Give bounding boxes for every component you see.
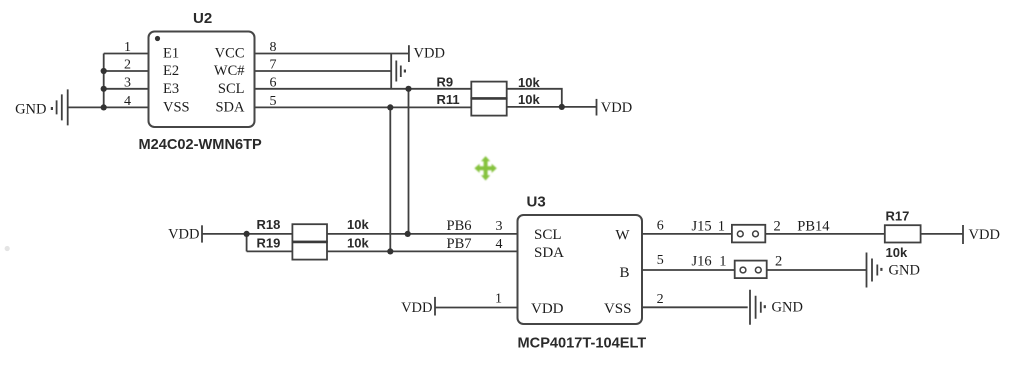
svg-text:6: 6 bbox=[657, 218, 664, 233]
svg-text:J16: J16 bbox=[692, 254, 712, 270]
svg-text:R17: R17 bbox=[886, 209, 910, 224]
svg-text:E3: E3 bbox=[163, 81, 179, 97]
svg-text:1: 1 bbox=[719, 254, 726, 270]
svg-text:1: 1 bbox=[495, 292, 502, 307]
svg-text:GND: GND bbox=[772, 300, 803, 316]
svg-text:2: 2 bbox=[657, 292, 664, 307]
svg-text:7: 7 bbox=[270, 58, 277, 73]
svg-text:U3: U3 bbox=[527, 194, 546, 211]
svg-text:VDD: VDD bbox=[531, 301, 564, 317]
svg-text:3: 3 bbox=[124, 75, 131, 90]
svg-text:1: 1 bbox=[718, 219, 725, 235]
svg-text:SCL: SCL bbox=[534, 227, 562, 243]
svg-text:U2: U2 bbox=[193, 10, 212, 27]
svg-text:R9: R9 bbox=[437, 75, 454, 90]
svg-text:5: 5 bbox=[270, 94, 277, 109]
svg-text:VSS: VSS bbox=[604, 301, 632, 317]
svg-text:10k: 10k bbox=[347, 236, 369, 251]
svg-text:2: 2 bbox=[124, 58, 131, 73]
svg-text:GND: GND bbox=[889, 262, 920, 278]
svg-text:VSS: VSS bbox=[163, 99, 190, 115]
svg-text:SDA: SDA bbox=[534, 245, 564, 261]
svg-text:MCP4017T-104ELT: MCP4017T-104ELT bbox=[518, 336, 647, 352]
svg-text:2: 2 bbox=[775, 254, 782, 270]
svg-text:GND: GND bbox=[15, 101, 46, 117]
svg-text:SDA: SDA bbox=[215, 99, 245, 115]
svg-text:PB6: PB6 bbox=[447, 218, 472, 234]
svg-text:2: 2 bbox=[774, 219, 781, 235]
svg-text:J15: J15 bbox=[692, 219, 712, 235]
svg-text:R19: R19 bbox=[257, 236, 281, 251]
svg-text:VDD: VDD bbox=[414, 45, 445, 61]
svg-text:8: 8 bbox=[270, 40, 277, 55]
svg-text:W: W bbox=[615, 227, 630, 243]
svg-text:M24C02-WMN6TP: M24C02-WMN6TP bbox=[139, 137, 263, 153]
svg-text:10k: 10k bbox=[347, 217, 369, 232]
svg-text:6: 6 bbox=[270, 75, 277, 90]
svg-text:SCL: SCL bbox=[218, 81, 245, 97]
svg-text:10k: 10k bbox=[518, 92, 540, 107]
svg-text:PB7: PB7 bbox=[447, 236, 472, 252]
svg-text:1: 1 bbox=[124, 40, 131, 55]
svg-text:5: 5 bbox=[657, 253, 664, 268]
svg-text:VDD: VDD bbox=[969, 227, 1000, 243]
svg-text:VDD: VDD bbox=[168, 226, 199, 242]
svg-text:3: 3 bbox=[496, 219, 503, 234]
svg-text:R18: R18 bbox=[257, 217, 281, 232]
svg-text:10k: 10k bbox=[518, 75, 540, 90]
svg-text:10k: 10k bbox=[886, 245, 908, 260]
svg-text:VCC: VCC bbox=[215, 45, 245, 61]
svg-text:E2: E2 bbox=[163, 63, 179, 79]
svg-text:VDD: VDD bbox=[401, 300, 432, 316]
svg-text:PB14: PB14 bbox=[797, 219, 830, 235]
svg-text:E1: E1 bbox=[163, 45, 179, 61]
svg-text:B: B bbox=[619, 265, 629, 281]
svg-text:4: 4 bbox=[496, 237, 503, 252]
svg-text:R11: R11 bbox=[437, 92, 460, 107]
svg-text:VDD: VDD bbox=[601, 100, 632, 116]
svg-text:4: 4 bbox=[124, 94, 131, 109]
svg-text:WC#: WC# bbox=[214, 63, 245, 79]
